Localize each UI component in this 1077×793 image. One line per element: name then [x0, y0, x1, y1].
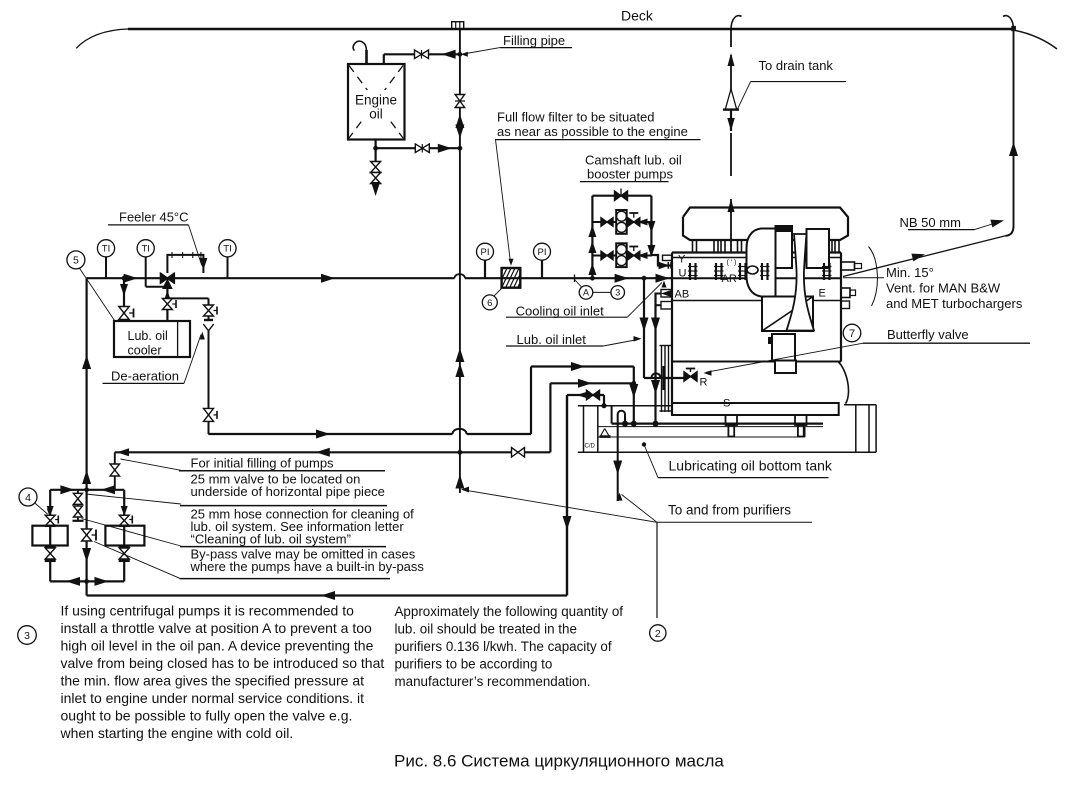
deaeration horizontal: [167, 297, 208, 299]
footer arrow right: [95, 577, 109, 586]
svg-text:C/D: C/D: [585, 444, 596, 450]
initial fill stub: [114, 452, 116, 490]
feeler leader: [189, 225, 202, 266]
pump 1 box: [32, 526, 67, 546]
full flow filter: [494, 268, 527, 288]
butterfly valve R: [684, 372, 691, 382]
riser down arrow: [455, 125, 464, 139]
tank dashed diagonal 1: [349, 66, 403, 139]
lower port pipe: [655, 304, 662, 306]
PI instrument 2: [541, 260, 543, 278]
run B arrow: [578, 379, 592, 388]
oil pan right bulge: [839, 362, 849, 404]
svg-text:3: 3: [24, 630, 30, 642]
tank right column: [855, 405, 857, 453]
svg-text:inlet to engine under normal s: inlet to engine under normal service con…: [61, 690, 365, 706]
valve on filling run: [512, 448, 519, 458]
svg-text:underside of horizontal pipe p: underside of horizontal pipe piece: [191, 484, 385, 499]
circle 6 leader: [494, 289, 502, 297]
deck right end curve: [1016, 31, 1058, 50]
svg-text:4: 4: [25, 492, 31, 504]
air receiver: [683, 208, 848, 241]
bypass down arrow: [82, 548, 91, 562]
pump1 outlet valve: [628, 218, 634, 227]
pump2 outlet valve: [628, 251, 634, 260]
tank outlet arrow: [438, 144, 452, 153]
air cooler box: [772, 334, 795, 361]
purifier riser down arrow: [563, 516, 572, 530]
main delivery pipe right: [465, 277, 672, 279]
svg-text:Рис. 8.6 Система циркуляционно: Рис. 8.6 Система циркуляционного масла: [394, 752, 724, 771]
initial fill stub valve: [110, 464, 120, 470]
booster pump 1: [616, 210, 627, 234]
initial filling arrow: [316, 448, 330, 457]
tank drain arrow: [375, 183, 377, 186]
A circle leader: [575, 280, 582, 288]
svg-text:NB 50 mm: NB 50 mm: [900, 215, 961, 230]
cooler left valve: [119, 307, 130, 314]
circle 3 note callout: [18, 626, 37, 645]
hose stub valve 2: [73, 506, 82, 512]
svg-text:Camshaft lub. oil: Camshaft lub. oil: [585, 153, 682, 168]
cyl flange 1: [689, 263, 691, 280]
svg-text:2: 2: [655, 628, 661, 640]
cooler branch left drop: [123, 278, 125, 321]
right vent elbow: [1006, 226, 1014, 236]
cooler mid up arrow: [164, 291, 171, 301]
min 15 arc: [869, 247, 878, 307]
svg-text:Lub. oil inlet: Lub. oil inlet: [517, 332, 587, 347]
booster pump 2: [616, 243, 627, 267]
main pipe arrow into engine U: [656, 274, 670, 283]
loop tick 2: [182, 252, 184, 258]
Y feed line: [657, 255, 659, 266]
bottom suction line: [87, 594, 567, 596]
booster right down arrow 2: [647, 245, 655, 257]
pump1 inlet valve: [601, 218, 607, 227]
pump right branch: [123, 490, 125, 582]
booster discharge arrow: [659, 262, 670, 270]
AB pipe: [655, 293, 662, 295]
svg-text:the min. flow area gives the s: the min. flow area gives the specified p…: [61, 673, 365, 689]
booster left up arrow 2: [588, 241, 596, 253]
vent pipe dashed section: [730, 133, 732, 176]
header junction dot: [84, 487, 89, 492]
svg-text:Approximately the following qu: Approximately the following quantity of: [395, 604, 624, 619]
purifier riser: [566, 395, 568, 596]
bypass valve: [82, 529, 92, 535]
handhole ellipse: [747, 266, 758, 274]
lower port stub: [661, 302, 672, 310]
engine head line: [672, 257, 841, 259]
valve on tank fill line: [415, 50, 422, 59]
butterfly leader: [706, 343, 863, 372]
NB 50 leader: [975, 221, 1003, 230]
circle 5 callout: [67, 251, 85, 269]
pump riser vertical: [85, 278, 87, 595]
turbo blower casing: [747, 229, 776, 297]
deck left end curve: [76, 29, 129, 48]
deaeration leader: [184, 335, 201, 384]
filter leader: [496, 140, 511, 263]
vent down arrow: [727, 118, 735, 131]
svg-text:install a throttle valve at po: install a throttle valve at position A t…: [61, 620, 373, 636]
riser junction dot bottom: [458, 146, 463, 151]
tank inner bottom line: [598, 436, 805, 438]
svg-text:To and from purifiers: To and from purifiers: [668, 503, 791, 518]
cyl flange 2: [715, 263, 717, 280]
drain blob 1: [631, 421, 637, 427]
booster left up arrow 1: [588, 225, 596, 237]
right lower stub: [841, 301, 850, 309]
three-way thermostatic valve: [160, 273, 167, 283]
note leader 1: [121, 459, 182, 470]
valve on tank outlet line: [415, 144, 422, 153]
booster left vertical: [591, 196, 593, 279]
deaeration valve: [204, 305, 214, 311]
Y flange pair: [667, 262, 669, 269]
deaeration funnel: [203, 324, 208, 331]
tank top line left: [578, 405, 672, 407]
main delivery pipe left: [87, 277, 455, 279]
svg-text:3: 3: [615, 288, 620, 298]
tank fill arrow: [442, 50, 456, 59]
footer arrow left: [66, 577, 80, 586]
lub inlet down arrow: [640, 318, 649, 332]
purifier drop to tank: [603, 395, 605, 406]
header arrow left: [101, 485, 115, 494]
engine left edge: [671, 253, 673, 416]
booster junction dot: [590, 276, 595, 281]
receiver leg 4: [737, 240, 739, 253]
vent pipe below funnel: [730, 110, 732, 131]
E port stub: [841, 288, 850, 298]
drain drop arrow: [629, 384, 638, 398]
purifier leader to suction: [622, 495, 658, 523]
tank outlet junction dot: [373, 146, 378, 151]
svg-text:If using centrifugal pumps it: If using centrifugal pumps it is recomme…: [61, 603, 355, 619]
run A drop: [633, 367, 635, 384]
svg-text:For initial filling of pumps: For initial filling of pumps: [191, 456, 335, 471]
svg-text:TI: TI: [102, 244, 110, 255]
cooler left down arrow: [120, 284, 128, 296]
tank fill line: [384, 53, 460, 55]
tank outlet line to riser: [376, 147, 460, 149]
svg-text:AB: AB: [675, 288, 690, 300]
pump left suction valve: [47, 506, 54, 516]
circle 5 leader: [80, 268, 115, 320]
tank drain valve lower: [371, 173, 381, 179]
suction n-pipe: [618, 411, 625, 453]
pump row1 line: [592, 221, 616, 223]
bedplate band: [672, 403, 839, 415]
cleaning run B horizontal: [550, 382, 633, 384]
drain funnel: [725, 89, 736, 109]
svg-text:6: 6: [487, 298, 492, 309]
valve R hop: [652, 373, 661, 378]
loop tick 1: [171, 252, 173, 258]
svg-text:lub. oil should be treated in: lub. oil should be treated in the: [395, 622, 577, 637]
vent diagonal mid arrow: [911, 254, 925, 262]
mid branch horizontal: [146, 286, 168, 288]
feeler bypass loop: [167, 255, 203, 273]
deaeration column upper: [208, 298, 210, 320]
svg-text:De-aeration: De-aeration: [111, 369, 179, 384]
run A riser: [530, 367, 532, 435]
engine right edge: [840, 253, 842, 362]
svg-text:TI: TI: [223, 244, 231, 255]
tank dashed diagonal 2: [349, 66, 403, 139]
hose stub valve 1: [73, 493, 82, 499]
svg-text:manufacturer’s recommendation.: manufacturer’s recommendation.: [395, 674, 591, 689]
drain down arrow 1: [651, 318, 660, 332]
filling pipe riser: [459, 29, 461, 493]
pump footer line: [50, 580, 124, 582]
Y port stub: [663, 255, 672, 260]
cyl flange 3: [739, 263, 741, 280]
lub inlet drop: [643, 278, 645, 378]
PI instrument 1: [484, 260, 486, 278]
purifier callout vertical: [656, 522, 658, 618]
svg-text:Lub. oil: Lub. oil: [128, 329, 168, 343]
riser up arrow a: [82, 355, 91, 369]
svg-text:Y: Y: [678, 254, 686, 266]
svg-text:ought to be possible to fully: ought to be possible to fully open the v…: [61, 708, 353, 724]
svg-text:high oil level in the oil pan.: high oil level in the oil pan. A device …: [61, 638, 374, 654]
purifier suction arrow: [613, 461, 622, 475]
turbo right box: [807, 229, 830, 268]
min 15 reference line: [843, 277, 884, 279]
deaeration lower valve: [204, 408, 214, 415]
AB port stub: [661, 290, 672, 298]
svg-text:PI: PI: [538, 247, 547, 258]
note leader 2: [86, 494, 181, 504]
TI2 stem below line: [145, 278, 147, 287]
pump1 outlet arrow: [638, 219, 648, 226]
AB out arrow: [661, 290, 672, 298]
pump right suction valve: [121, 506, 128, 516]
pump row2 line: [592, 255, 616, 257]
drain drop to tank: [633, 383, 635, 423]
svg-text:as near as possible to the eng: as near as possible to the engine: [497, 124, 688, 139]
receiver leg 6: [827, 240, 829, 253]
tank left column: [583, 406, 585, 453]
tick on main line: [574, 275, 576, 282]
engine foot 1: [726, 415, 738, 425]
booster discharge elbow: [651, 255, 671, 266]
receiver leg 7: [834, 240, 836, 253]
valve on riser below deck: [455, 95, 465, 102]
engine foot 2: [795, 415, 807, 425]
booster bypass valve: [615, 191, 622, 201]
tank inner top line: [598, 426, 823, 428]
drain blob 2: [653, 421, 659, 427]
svg-text:7: 7: [849, 328, 855, 340]
svg-text:Butterfly valve: Butterfly valve: [887, 327, 969, 342]
svg-text:Vent. for MAN B&W: Vent. for MAN B&W: [886, 281, 1001, 296]
receiver leg 5: [750, 240, 752, 253]
svg-text:Engine: Engine: [355, 93, 397, 108]
svg-text:booster pumps: booster pumps: [587, 167, 673, 182]
lub inlet junction dot: [642, 276, 647, 281]
svg-text:AR: AR: [722, 273, 737, 285]
svg-text:A: A: [583, 288, 589, 298]
engine top line: [672, 251, 841, 253]
lub oil cooler box: [114, 321, 190, 357]
tank vent pipe: [365, 50, 368, 64]
tank bottom outlet stub: [375, 140, 377, 149]
engine oil tank box: [348, 64, 405, 140]
vent diagonal arrow near elbow: [990, 220, 1004, 228]
pump left discharge valve: [45, 545, 56, 548]
tank top line right: [844, 404, 876, 406]
svg-text:where the pumps have a built-i: where the pumps have a built-in by-pass: [190, 559, 425, 574]
svg-text:R: R: [700, 377, 708, 389]
main pipe arrow 2: [321, 274, 335, 283]
svg-text:Lubricating oil bottom tank: Lubricating oil bottom tank: [669, 458, 833, 474]
tank leader dot: [642, 442, 646, 446]
svg-text:when starting the engine with: when starting the engine with cold oil.: [60, 725, 294, 741]
drain tank leader: [751, 81, 846, 83]
svg-text:valve from being closed has to: valve from being closed has to be introd…: [61, 655, 385, 671]
svg-text:5: 5: [73, 255, 79, 267]
svg-text:Cooling oil inlet: Cooling oil inlet: [516, 304, 605, 319]
cooler mid drop: [166, 283, 168, 321]
run A arrow: [571, 362, 585, 371]
vent pipe upper: [730, 29, 732, 47]
pump 2 box: [105, 526, 144, 546]
svg-text:Min. 15°: Min. 15°: [886, 265, 934, 280]
tank bottom line: [578, 451, 876, 453]
vent mid up arrow: [728, 199, 735, 212]
tank text backing: [355, 90, 398, 120]
hose cleaning run: [208, 433, 452, 435]
bottom tank leader: [644, 445, 658, 478]
lub inlet leader: [603, 340, 638, 347]
suction arrow: [321, 591, 335, 600]
pump2 outlet arrow: [638, 252, 648, 259]
svg-text:E: E: [819, 287, 826, 299]
svg-text:To drain tank: To drain tank: [759, 58, 834, 73]
cyl flange 5: [823, 263, 825, 280]
drain header left drop: [611, 406, 613, 424]
riser up arrow d: [82, 470, 91, 484]
circle 3 callout: [611, 286, 625, 300]
turbo diffuser: [787, 234, 815, 331]
receiver leg 2: [713, 240, 715, 253]
cooler mid valve: [162, 299, 172, 305]
note leader 3: [82, 519, 181, 547]
junction dot cooler left: [122, 276, 127, 281]
purifier top line: [567, 394, 604, 396]
vent up arrow above deck: [728, 53, 735, 66]
circle 6 callout: [482, 295, 497, 310]
svg-text:oil: oil: [369, 107, 383, 122]
riser junction dot top: [458, 52, 463, 57]
pump left branch: [49, 490, 51, 582]
svg-text:cooler: cooler: [128, 344, 162, 358]
TI instrument 3: [227, 257, 229, 278]
pump2 inlet valve: [601, 251, 607, 260]
purifier suction below tank: [617, 452, 619, 501]
svg-text:( ′ ): ( ′ ): [727, 260, 737, 267]
n-pipe junction blob: [622, 421, 628, 427]
main pipe arrow 3: [615, 274, 629, 283]
air cooler lower box: [775, 361, 796, 374]
loop tick 4: [200, 252, 202, 258]
svg-text:PI: PI: [481, 247, 490, 258]
TI instrument 2: [145, 257, 147, 278]
purifier leader to riser: [463, 490, 657, 523]
deck pipe sleeve box: [452, 22, 464, 29]
footer junction dot: [84, 579, 89, 584]
filling pipe leader: [463, 48, 500, 54]
circle A: [579, 286, 593, 300]
riser up arrow: [455, 114, 464, 128]
right vent up arrow: [1009, 142, 1018, 156]
A-3 connector: [593, 291, 611, 293]
run junction dot: [631, 381, 636, 386]
run A horizontal: [531, 365, 634, 367]
cooling inlet leader: [627, 283, 662, 318]
pump header top: [50, 489, 124, 491]
purifier line valve: [587, 390, 594, 400]
main pipe arrow 1: [124, 274, 138, 283]
deaeration column lower: [208, 331, 210, 434]
right vent gooseneck: [1003, 16, 1014, 30]
circle 4 leader: [35, 503, 48, 514]
hose connection stub: [77, 490, 79, 521]
hose run hop: [453, 429, 467, 434]
tank drain valve upper: [371, 162, 381, 168]
note leader 4: [94, 542, 180, 579]
receiver leg 3: [720, 240, 722, 253]
svg-text:TI: TI: [141, 244, 149, 255]
pump right discharge valve: [119, 545, 130, 548]
svg-text:purifiers to be according to: purifiers to be according to: [395, 657, 553, 672]
svg-text:Filling pipe: Filling pipe: [503, 33, 565, 48]
strainer column: [661, 345, 663, 412]
engine mid line: [672, 277, 841, 279]
main pipe hop over riser: [455, 274, 465, 278]
air cooler tick: [768, 337, 772, 344]
svg-text:Deck: Deck: [621, 8, 654, 24]
booster right down arrow 1: [647, 221, 655, 233]
engine crankcase line: [672, 300, 841, 302]
under turbo box: [762, 297, 813, 332]
filling run riser: [549, 383, 551, 452]
right vent stub: [841, 262, 855, 270]
circle 4 callout: [19, 488, 37, 506]
tank fill stub: [383, 54, 385, 64]
booster top bypass: [592, 195, 651, 197]
vent diagonal pipe: [843, 236, 1006, 277]
hose run arrow: [316, 430, 330, 439]
riser junction dot at horizontal pipe: [458, 450, 463, 455]
TI instrument 1: [105, 257, 107, 278]
svg-text:Full flow filter to be situate: Full flow filter to be situated: [497, 110, 655, 125]
svg-text:and MET turbochargers: and MET turbochargers: [886, 296, 1023, 311]
booster right vertical: [650, 196, 652, 255]
booster left up arrow 3: [588, 263, 596, 275]
svg-text:“Cleaning of lub. oil system”: “Cleaning of lub. oil system”: [191, 532, 351, 547]
drain header in tank: [612, 423, 823, 425]
valve R line: [644, 377, 684, 379]
deck line: [128, 28, 1014, 30]
riser double up arrows mid: [455, 348, 464, 362]
purifier line arrow: [577, 391, 590, 399]
drain down arrow 2: [651, 380, 660, 394]
